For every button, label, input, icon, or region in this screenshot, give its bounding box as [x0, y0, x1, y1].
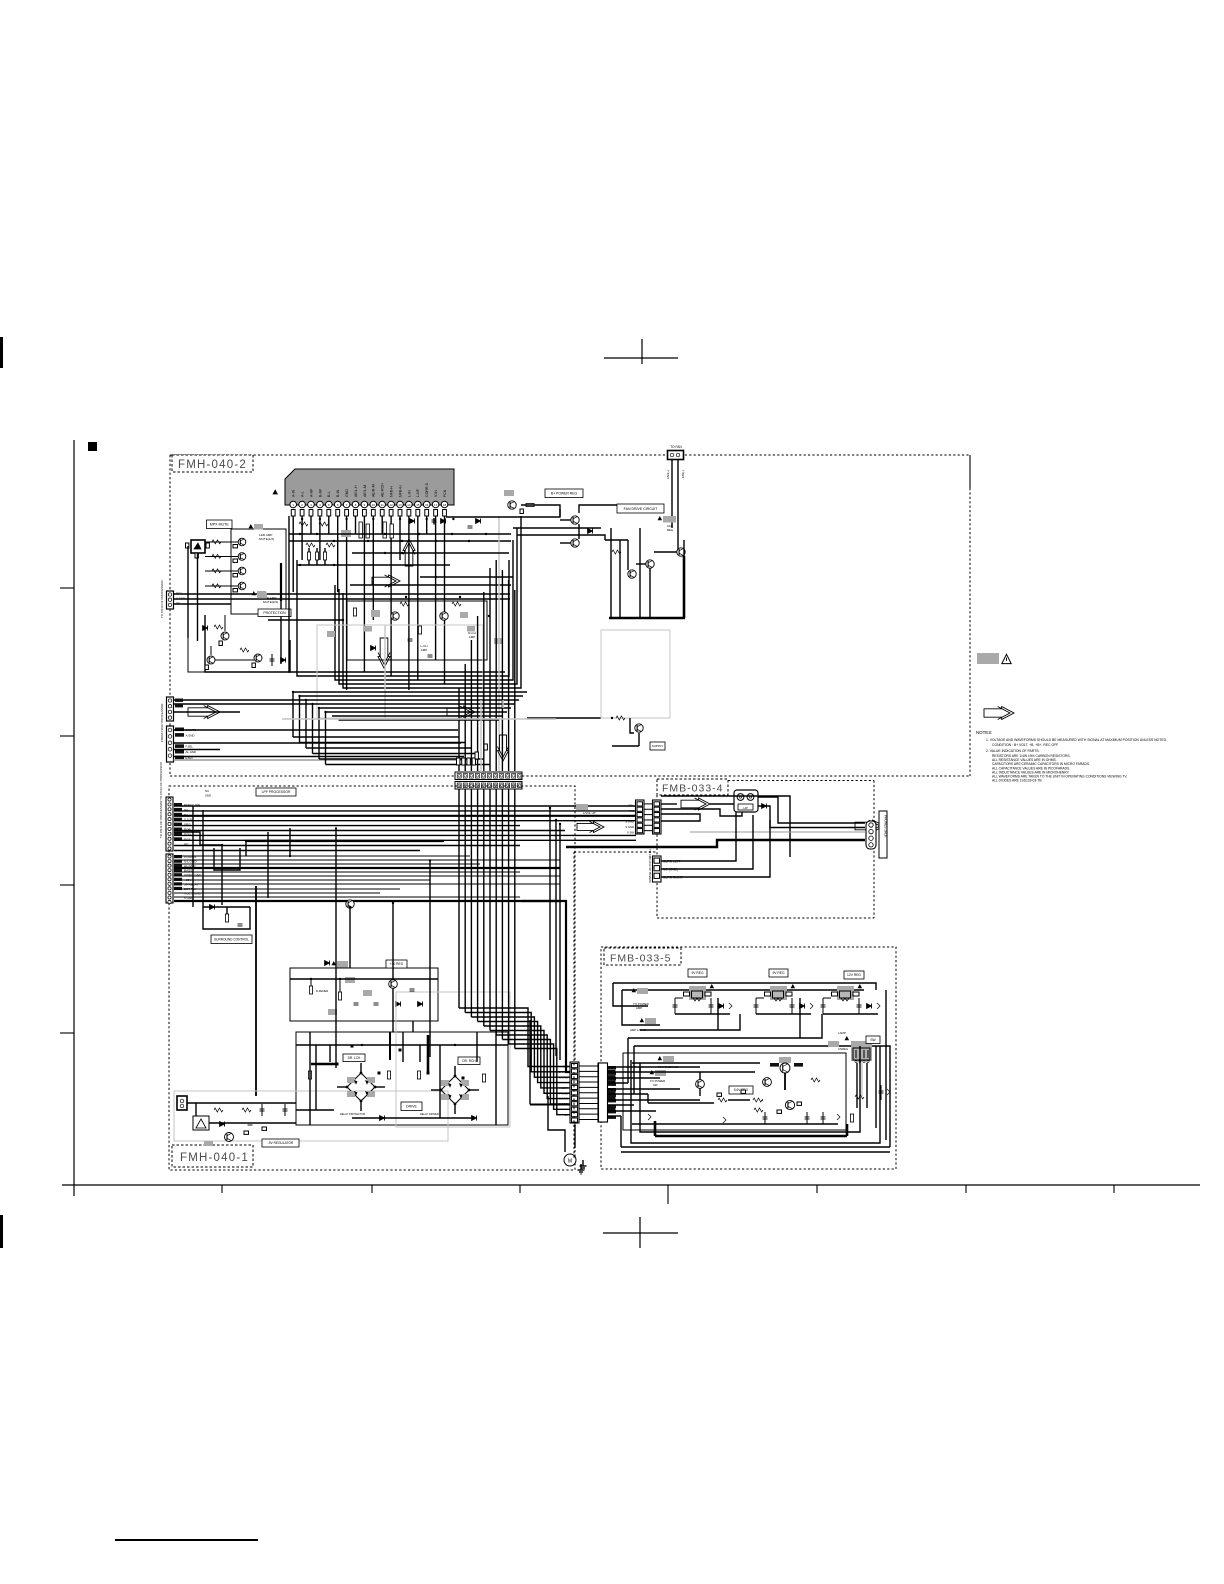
bridge rectifier right	[431, 1066, 479, 1114]
shield gray wire vertical	[384, 625, 386, 718]
wire v x393b	[392, 988, 394, 1032]
wire v x336	[335, 829, 337, 1033]
svg-text:SP.REL: SP.REL	[558, 1070, 568, 1074]
warning mark A1	[249, 525, 253, 528]
svg-text:L-IN: L-IN	[407, 490, 411, 497]
bus wire H2-1	[174, 855, 470, 857]
wire REG3 top	[823, 997, 831, 999]
wire pr 2	[521, 505, 560, 516]
thick bottom bus 2	[621, 1146, 890, 1148]
transistor Q15	[221, 632, 229, 640]
junction reg30	[339, 978, 341, 980]
svg-text:11: 11	[381, 503, 384, 507]
diode D91	[648, 1114, 651, 1120]
wire CN41-3	[607, 1077, 660, 1079]
wire reg30 v3	[392, 979, 394, 980]
signal arrow right mid	[372, 575, 400, 587]
resistor R15b	[307, 552, 310, 560]
+30 reg circuit box	[290, 968, 438, 1021]
zener REG3	[877, 1003, 880, 1009]
board label FMB-033-5	[604, 948, 681, 965]
svg-text:SW: SW	[653, 1083, 658, 1087]
shield pad D4	[328, 1009, 337, 1015]
wire loop E	[343, 516, 521, 688]
thick wire drive h	[311, 1063, 338, 1065]
svg-text:SW.MUTE: SW.MUTE	[621, 814, 634, 818]
svg-text:18: 18	[443, 503, 447, 507]
resistor R75	[214, 1108, 223, 1112]
mute switch IC Q11	[186, 540, 210, 558]
svg-text:FMB-033-5: FMB-033-5	[610, 953, 672, 965]
wire fmb5 h2	[640, 1071, 755, 1073]
wire CN41 riser2	[627, 1038, 629, 1083]
wire CN41-6	[607, 1093, 648, 1095]
wire v x350	[349, 907, 351, 968]
svg-text:LPF PROCESSOR: LPF PROCESSOR	[262, 790, 291, 794]
warning mark E1	[632, 989, 636, 992]
pin pad Q83	[797, 1102, 802, 1105]
capacitor C91	[764, 1112, 766, 1124]
wire CN41-7	[607, 1099, 700, 1101]
bus wire H2-7	[174, 879, 430, 881]
svg-text:NFB+H: NFB+H	[398, 485, 402, 497]
board-to-board connector CN2 (lower row)	[455, 782, 522, 790]
wire drive h3	[352, 1117, 474, 1119]
warning mark G2	[650, 1071, 654, 1074]
bus bundle center vertical	[459, 789, 515, 1049]
label B+ POWER REG	[545, 489, 583, 498]
bus wire H2-6	[174, 875, 560, 877]
svg-text:HP: HP	[743, 806, 747, 810]
diode SW b	[887, 1089, 890, 1095]
left ruler tick 1	[60, 587, 74, 589]
wire CN41 riser1	[639, 1063, 641, 1072]
inner circuit box FMB5	[623, 1053, 846, 1130]
svg-text:L-NF: L-NF	[416, 488, 420, 497]
transistor Q53	[677, 548, 685, 556]
label DR LCH	[343, 1054, 365, 1062]
wire reg h 1038	[628, 1014, 822, 1038]
svg-text:TO CN11 OF PROCESSOR TO CN1: TO CN11 OF PROCESSOR TO CN13 OF PROCESSO…	[159, 761, 163, 838]
junction dot 4	[488, 615, 490, 617]
square junctions drive	[336, 1045, 465, 1080]
pin labels right of CN26	[608, 1070, 616, 1111]
label 5.6V REG	[729, 1086, 753, 1094]
wire rail y565	[297, 564, 450, 566]
shield outline right (light gray)	[601, 630, 670, 718]
shield pad D3	[363, 990, 372, 996]
svg-text:CONDITION : B+ VOLT. +B,: CONDITION : B+ VOLT. +B, +B+. REC OFF	[992, 743, 1058, 747]
wire -9v h2	[209, 1122, 296, 1124]
pin labels CN21	[174, 789, 211, 846]
warning mark F1	[658, 517, 662, 520]
svg-text:V-IN: V-IN	[434, 490, 438, 497]
signal arrow down to CN1	[498, 735, 509, 761]
resistor R51	[612, 550, 621, 554]
wire REG2 bottom	[756, 1013, 811, 1015]
wire CN41-8	[607, 1104, 634, 1106]
pin pad PR	[520, 509, 523, 514]
svg-text:AE/R-M: AE/R-M	[372, 484, 376, 497]
wire reg30 v1	[310, 979, 312, 986]
warning mark REG2	[791, 985, 795, 988]
wire mid rail 4	[268, 619, 343, 621]
resistor R17b	[323, 552, 326, 560]
legend signal-path arrow	[984, 707, 1014, 720]
label SURROUND CONTROL	[211, 935, 252, 944]
capacitor C64	[410, 988, 415, 990]
connector CN26 strip	[598, 1063, 607, 1122]
signal arrow up	[403, 539, 415, 566]
shield pad D2	[345, 977, 355, 983]
wire loop A	[289, 516, 505, 672]
pin pad Q16	[205, 665, 208, 670]
wire fmb5 bottom x	[621, 1151, 890, 1153]
diode D63	[396, 1002, 401, 1007]
capacitor C63	[374, 1002, 379, 1004]
top center crop mark	[604, 339, 678, 364]
label 9V REG (2)	[769, 969, 788, 977]
label SUPPLY	[650, 742, 665, 750]
svg-text:FAN DRIVE CIRCUIT: FAN DRIVE CIRCUIT	[624, 507, 659, 511]
wire v x222	[221, 845, 223, 905]
resistor R93	[754, 1108, 763, 1112]
bus wire H2-4	[174, 867, 560, 869]
capacitor C73	[248, 1122, 253, 1124]
transistor Q54	[635, 724, 643, 732]
resistor R62	[309, 986, 312, 994]
wire CN41-4	[607, 1082, 628, 1084]
diode REG1	[719, 1004, 724, 1009]
diode D61	[210, 905, 215, 910]
label 9V REG (1)	[688, 969, 707, 977]
signal arrow down	[378, 638, 390, 668]
zener REG1	[729, 1003, 732, 1009]
label FAN DRIVE CIRCUIT	[617, 504, 664, 513]
ground symbol FMB5	[580, 1160, 587, 1170]
svg-text:A-NF: A-NF	[309, 488, 313, 497]
page margin bar bottom-left	[0, 1215, 3, 1248]
label -9V REGULATOR	[262, 1139, 299, 1147]
regulator REG1 body	[684, 986, 712, 1001]
svg-text:SURR RIGHT: SURR RIGHT	[663, 876, 683, 880]
wire mute out thin	[280, 601, 282, 664]
IC U1 pin 15	[415, 488, 422, 516]
wire from U1 pin 14	[408, 516, 410, 690]
board label FMH-040-2	[172, 455, 253, 472]
svg-text:TO FMD-033 SP BOARD: TO FMD-033 SP BOARD	[648, 849, 652, 884]
svg-text:17: 17	[434, 503, 438, 507]
wire mute rail	[187, 546, 189, 638]
shield pad G1	[663, 1056, 674, 1062]
svg-text:B+ POWER REG: B+ POWER REG	[551, 491, 578, 495]
svg-text:CORR.S: CORR.S	[425, 482, 429, 497]
wire from U1 pin 8	[355, 516, 357, 534]
svg-text:5V: 5V	[565, 1113, 569, 1117]
bus wire H2-11	[174, 896, 520, 898]
thick bottom bus 1	[655, 1135, 847, 1138]
wire fan h3	[654, 551, 677, 553]
transistor Q22	[440, 612, 448, 620]
wire from U1 pin 11	[381, 516, 383, 534]
wire surr loop	[203, 907, 250, 929]
wire fan v2	[619, 540, 621, 618]
wire base Q12	[205, 541, 238, 543]
shield pad C4	[467, 626, 475, 632]
wire cn12 line1	[174, 729, 459, 731]
bottom ruler tick 1	[221, 1185, 223, 1193]
bus bundle to connector CN1	[459, 560, 515, 771]
label MPX MUTE	[207, 520, 233, 529]
IC U1 pin 8	[352, 485, 359, 516]
shield pad SW	[828, 1041, 839, 1047]
wire reg loop1	[613, 983, 648, 1006]
svg-text:FMB-033-4: FMB-033-4	[662, 783, 724, 795]
wire hp gray	[690, 831, 865, 833]
wire hp in top	[661, 803, 677, 805]
drive section outer box	[296, 1032, 508, 1125]
bus wire bottom 8	[339, 719, 500, 721]
bus wire bottom 1	[293, 691, 527, 693]
wire cn12 line4 (gray)	[174, 759, 468, 761]
bus left drops	[292, 691, 490, 765]
bottom ruler tick 4	[667, 1185, 669, 1204]
svg-text:15: 15	[416, 503, 420, 507]
pin pad Q14	[233, 574, 238, 577]
board FMH-040-1 dashed border	[169, 786, 575, 1170]
svg-text:12V REG: 12V REG	[847, 973, 861, 977]
svg-text:+30 REG: +30 REG	[390, 962, 404, 966]
wire prot 1	[210, 646, 212, 655]
wire cn12 line5	[174, 749, 221, 751]
wire v x193	[192, 806, 194, 907]
wire CN41-5	[607, 1088, 680, 1090]
resistor R72	[387, 1071, 390, 1079]
wire supply h	[612, 745, 639, 747]
pin labels CN12a	[175, 699, 183, 708]
svg-text:PROTECTION: PROTECTION	[263, 611, 286, 615]
wire rail y553	[352, 552, 509, 554]
wire riser x240	[214, 848, 240, 870]
wire -9v box	[195, 1103, 197, 1116]
connector CN23	[177, 1096, 187, 1110]
svg-text:VDD: VDD	[205, 794, 211, 798]
pin pad Q15	[219, 641, 222, 646]
svg-text:S.GND: S.GND	[625, 820, 634, 824]
svg-text:AMP: AMP	[469, 635, 476, 639]
shield pad E1	[637, 988, 648, 994]
warning mark D1	[332, 962, 336, 965]
resistor R91	[718, 1098, 727, 1102]
label +30 REG	[386, 960, 407, 968]
wire sw drop2	[861, 1063, 863, 1096]
capacitor REG1 b	[710, 998, 712, 1014]
resistor R14b	[326, 543, 335, 547]
shield pad D1	[337, 961, 348, 968]
wire motor v2	[574, 1125, 576, 1148]
shield pad PR1	[504, 490, 514, 496]
connector CN34 surround out	[653, 856, 662, 882]
resistor R52	[616, 716, 625, 720]
wire from U1 pin 13	[399, 516, 401, 560]
junction right v	[549, 807, 551, 809]
resistor R32	[418, 626, 421, 634]
resistor R12	[212, 540, 221, 544]
wire right v1	[555, 820, 557, 1056]
svg-text:TO CN10 OF PROCESSOR: TO CN10 OF PROCESSOR	[160, 580, 164, 618]
wire pr 4	[560, 542, 571, 544]
resistor R76	[242, 1108, 251, 1112]
bottom ruler tick 2	[371, 1185, 373, 1193]
wire fan 1	[671, 460, 673, 529]
shield gray wire vertical 2	[498, 516, 500, 772]
capacitor C72	[284, 1104, 286, 1116]
shield outline left (light gray)	[317, 625, 483, 718]
mute circuit box	[231, 529, 286, 614]
warning mark REG3	[858, 985, 862, 988]
bus bundle staircase to right	[459, 1008, 570, 1115]
wire fan v3	[627, 540, 629, 570]
wire REC line	[174, 593, 511, 595]
label DR RCH	[458, 1057, 480, 1065]
wire REG3 bottom	[823, 1013, 878, 1015]
svg-text:B.GND: B.GND	[559, 1075, 568, 1079]
shield pad F1	[663, 516, 676, 523]
wire from U1 pin 4	[319, 516, 321, 560]
junction dot 3	[459, 596, 461, 598]
regulator REG2 body	[765, 986, 793, 1001]
wire mid rail 1	[289, 540, 511, 542]
wire cn12a line3	[174, 711, 241, 713]
wire fan v5	[649, 568, 651, 618]
resistor R15	[212, 584, 221, 588]
capacitor C61	[238, 923, 243, 925]
wire from U1 pin 16	[426, 516, 428, 534]
resistor R95	[811, 1078, 820, 1082]
bottom ruler tick 6	[965, 1185, 967, 1193]
IC U1 audio processor (gray block)	[285, 469, 454, 505]
IC U1 pin 1	[290, 489, 297, 516]
pin label boxes CN12	[175, 728, 196, 760]
bus wire bottom 5	[319, 707, 511, 709]
resistor R61	[225, 914, 228, 922]
connector CN21 strip	[166, 797, 173, 851]
transistor Q61	[346, 900, 354, 908]
wire reg v mid2	[799, 998, 801, 1038]
capacitor C71	[261, 1104, 263, 1116]
capacitor REG1 a	[674, 998, 676, 1014]
black square marker	[88, 442, 97, 451]
transistor Q84	[696, 1080, 705, 1089]
gray bus drop2 (light gray)	[502, 700, 504, 708]
wire from U1 pin 6	[337, 516, 339, 592]
transistor Q71	[225, 1133, 234, 1142]
svg-text:HP.L: HP.L	[628, 804, 634, 808]
transistor Q52	[646, 560, 654, 568]
capacitor C12	[366, 524, 369, 538]
shield pad B1	[257, 593, 267, 599]
diode D13	[476, 519, 481, 524]
bus wire H5	[174, 825, 520, 827]
wire prot 3	[224, 615, 226, 631]
shield pad under pins	[341, 530, 351, 537]
wire cn12a line2	[174, 703, 313, 705]
wire cn12 line2	[174, 742, 462, 744]
gray bus drop (light gray)	[480, 700, 482, 772]
label LPF PROCESSOR	[256, 788, 296, 796]
shield pad G2	[655, 1070, 666, 1076]
label PHONES vertical	[879, 811, 888, 858]
warning mark REG1	[710, 985, 714, 988]
signal arrow right lower	[447, 706, 475, 718]
bus wire H7	[174, 834, 636, 836]
wire fmb5 h3	[648, 1102, 714, 1104]
diode D71	[380, 1116, 385, 1121]
wire hp mid	[661, 814, 700, 821]
wire from U1 pin 15	[417, 516, 419, 680]
pin labels CN41	[608, 1066, 616, 1119]
IC U1 pin 18	[441, 489, 448, 516]
svg-text:ALL DIODES ARE 1SS133-03-TB: ALL DIODES ARE 1SS133-03-TB	[992, 779, 1042, 783]
resistor R12	[319, 522, 328, 526]
svg-text:REG: REG	[667, 528, 674, 532]
transistor Q14	[238, 567, 246, 575]
wire hp down1	[661, 812, 736, 862]
resistor SW	[850, 1114, 853, 1122]
wire riser x290	[289, 828, 291, 856]
svg-text:FAN(-): FAN(-)	[681, 470, 685, 478]
diode D75	[220, 1122, 225, 1127]
svg-text:9V REG: 9V REG	[691, 971, 704, 975]
shield pad -9v	[204, 1141, 213, 1146]
signal arrow between boards 1	[577, 822, 604, 833]
thick bus wire H-840	[246, 840, 444, 842]
connector CN25 strip	[570, 1062, 579, 1123]
junction dot 1	[342, 619, 344, 621]
junction dots drop tops	[301, 518, 455, 520]
wire drive v5	[476, 1032, 478, 1062]
wire loop fmb5 b	[640, 1046, 860, 1132]
resistor R63	[338, 992, 341, 1000]
resistor R94	[855, 1095, 864, 1099]
svg-text:F.SEL: F.SEL	[186, 745, 194, 749]
wire reg loop2	[622, 990, 660, 1025]
svg-text:B-NF: B-NF	[318, 488, 322, 497]
shield pad C5	[327, 631, 335, 637]
bus wire H845	[174, 845, 520, 847]
wire CN41 riser4	[647, 1094, 649, 1103]
pin link wires CN31-CN32	[644, 804, 653, 831]
thick wire mute out	[280, 563, 282, 601]
svg-text:1. VOLTAGE AND WAVEFORMS SHOUL: 1. VOLTAGE AND WAVEFORMS SHOULD BE MEASU…	[986, 738, 1167, 742]
svg-text:PW: PW	[629, 809, 634, 813]
wire surr v4	[267, 832, 269, 898]
capacitor C32	[428, 654, 433, 656]
pin labels CN31	[621, 804, 635, 835]
connector CN41 strip	[599, 1063, 608, 1122]
wire from U1 pin 2	[301, 516, 303, 560]
label SW	[866, 1036, 880, 1044]
wire surr v2	[202, 810, 204, 907]
svg-text:9 GND: 9 GND	[559, 1102, 568, 1106]
capacitor C13	[383, 522, 386, 538]
resistor R13	[212, 554, 221, 558]
board label FMH-040-1	[172, 1145, 253, 1167]
wire from U1 pin 5	[328, 516, 330, 534]
pin stub boxes above CN1	[457, 744, 488, 765]
wire surr h	[203, 906, 250, 908]
svg-text:A.GND: A.GND	[186, 733, 195, 737]
